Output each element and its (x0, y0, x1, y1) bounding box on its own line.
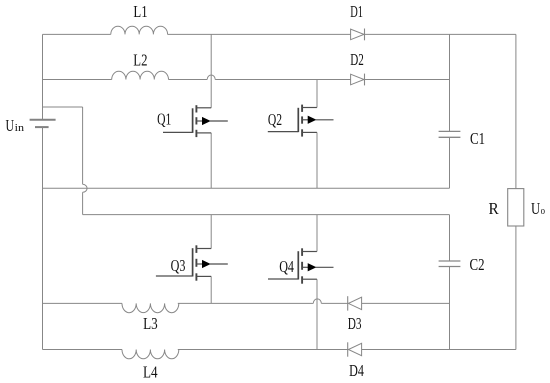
transistor Q3 (156, 245, 228, 280)
transistor Q1 drain tap (196, 107, 211, 109)
transistor Q1 arrow tail (210, 120, 228, 122)
wire hop over Q1 column (207, 75, 215, 80)
wire left vertical lower (42, 127, 44, 350)
svg-text:C1: C1 (470, 129, 485, 148)
transistor Q2 source tap (302, 131, 317, 133)
diode D1 (351, 29, 364, 40)
inductor L4 (122, 350, 179, 359)
svg-text:o: o (541, 206, 545, 217)
wire L3 rail to D3 (321, 302, 347, 304)
svg-text:D4: D4 (349, 361, 364, 380)
diode D3 (348, 297, 361, 309)
wire C2 bottom to L4 rail (449, 267, 451, 350)
transistor Q3 source tap (196, 275, 211, 277)
wire L3 rail left segment (43, 302, 123, 304)
wire D2 cathode to capacitor column (365, 79, 450, 81)
transistor Q3 drain tap (196, 248, 211, 250)
wire Q4 source vertical (316, 279, 318, 349)
battery Uin negative plate (35, 126, 49, 128)
transistor Q4 drain tap (302, 251, 317, 253)
svg-text:L4: L4 (143, 362, 158, 381)
wire mid rail 1 (43, 187, 450, 189)
transistor Q2 gate lead (268, 131, 299, 133)
transistor Q4 body lead (302, 266, 308, 268)
wire L4 rail middle segment (178, 349, 348, 351)
transistor Q4 body arrow (308, 264, 315, 271)
wire Q1 source vertical (210, 133, 212, 188)
svg-text:L1: L1 (133, 2, 147, 21)
svg-text:Q1: Q1 (157, 110, 171, 129)
transistor Q3 gate lead (156, 275, 193, 277)
wire battery branch horizontal (43, 106, 83, 108)
transistor Q3 body arrow (202, 261, 209, 268)
transistor Q2 arrow tail (316, 119, 334, 121)
transistor Q1 gate lead (163, 131, 193, 133)
svg-text:Q4: Q4 (279, 257, 294, 276)
wire top rail right segment (365, 33, 516, 35)
diode D4 (348, 343, 361, 355)
svg-text:D1: D1 (350, 2, 363, 21)
transistor Q1 gate bar (192, 108, 194, 133)
svg-text:C2: C2 (470, 255, 485, 274)
wire L2 rail middle segment (169, 79, 208, 81)
svg-text:Q2: Q2 (268, 110, 282, 129)
wire mid rail 2 (83, 214, 450, 216)
wire D4 anode to right vertical (362, 349, 516, 351)
wire Q2 source vertical (316, 132, 318, 188)
transistor Q2 channel segments (301, 105, 303, 112)
wire battery branch vertical lower (82, 192, 84, 214)
diode D2 (351, 74, 364, 85)
transistor Q1 channel segments (195, 105, 197, 112)
wire L3 rail middle segment (178, 302, 313, 304)
svg-text:L3: L3 (143, 314, 158, 333)
wire Q3 drain vertical (210, 215, 212, 249)
wire L2 rail left segment (43, 79, 112, 81)
transistor Q1 (163, 105, 228, 137)
transistor Q2 body lead (302, 119, 308, 121)
wire top rail left segment (43, 33, 111, 35)
wire L4 rail left segment (43, 349, 123, 351)
label Uin (6, 116, 25, 135)
transistor Q3 channel segments (195, 245, 197, 253)
inductor L1 (111, 26, 168, 34)
transistor Q4 (268, 248, 334, 283)
wire right vertical upper (515, 34, 517, 188)
resistor R (508, 189, 524, 226)
svg-text:U: U (6, 116, 15, 135)
inductor L3 (122, 303, 179, 312)
transistor Q1 source tap (196, 132, 211, 134)
wire mid rail 2 to C2 (449, 215, 451, 261)
wire D3 anode to capacitor column (362, 302, 450, 304)
wire Q4 drain vertical (316, 215, 318, 252)
wire top rail middle segment (168, 33, 351, 35)
transistor Q4 gate lead (268, 278, 298, 280)
transistor Q4 channel segments (301, 248, 303, 256)
wire hop over Q4 column (313, 299, 321, 304)
transistor Q2 drain tap (302, 107, 317, 109)
svg-text:R: R (489, 199, 500, 218)
wire Q3 source vertical (210, 276, 212, 303)
transistor Q2 body arrow (308, 116, 315, 123)
transistor Q4 arrow tail (316, 266, 334, 268)
wire C1 bottom to mid rail 1 (449, 137, 451, 188)
capacitor C1 (439, 131, 461, 137)
wire hop over rail 1 (83, 184, 88, 192)
transistor Q2 gate bar (297, 108, 299, 132)
transistor Q1 body lead (196, 120, 202, 122)
wire Q1 drain vertical (210, 34, 212, 107)
svg-text:U: U (531, 199, 540, 218)
transistor Q4 gate bar (297, 251, 299, 279)
inductor L2 (112, 71, 169, 79)
wire battery branch vertical upper (82, 107, 84, 184)
label Uo (531, 199, 545, 218)
capacitor C2 (439, 261, 461, 267)
transistor Q4 source tap (302, 278, 317, 280)
battery Uin positive plate (30, 119, 56, 121)
svg-text:Q3: Q3 (171, 256, 186, 275)
transistor Q3 gate bar (192, 248, 194, 276)
transistor Q3 body lead (196, 263, 202, 265)
svg-text:L2: L2 (133, 51, 147, 70)
transistor Q3 arrow tail (210, 263, 228, 265)
transistor Q1 body arrow (202, 118, 209, 125)
wire left vertical upper (42, 34, 44, 120)
wire Q2 drain vertical (316, 80, 318, 108)
wire capacitor column upper (449, 34, 451, 131)
wire right vertical lower (515, 226, 517, 350)
svg-text:D2: D2 (350, 50, 364, 69)
svg-text:in: in (15, 123, 25, 134)
svg-text:D3: D3 (348, 314, 362, 333)
wire L2 rail to D2 (215, 79, 350, 81)
transistor Q2 (268, 105, 334, 137)
